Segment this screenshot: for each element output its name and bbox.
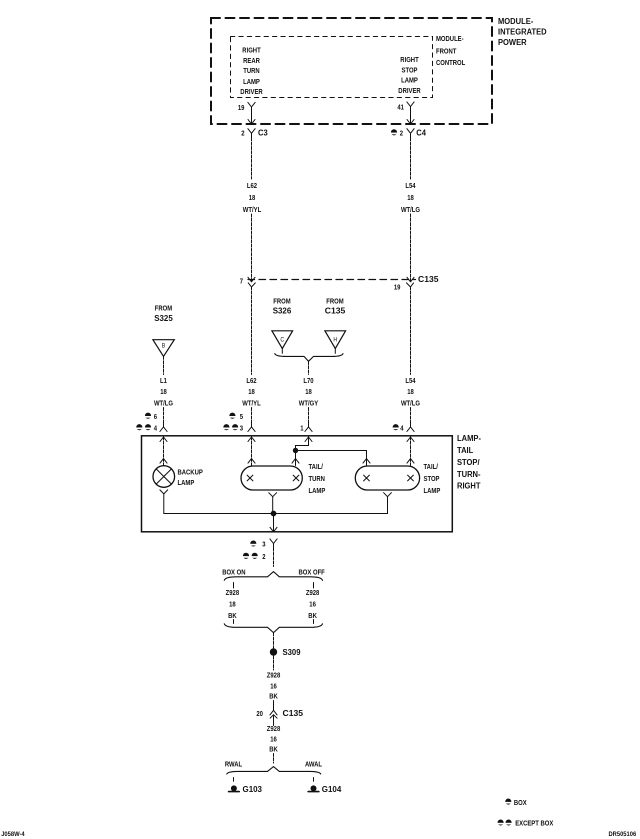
svg-text:WT/GY: WT/GY	[299, 398, 318, 407]
wire Z928 16 BK below S309	[273, 656, 275, 670]
svg-text:18: 18	[407, 193, 414, 202]
svg-text:J058W-4: J058W-4	[1, 831, 25, 838]
value label L54 18 WT/LG	[401, 376, 420, 407]
svg-text:CONTROL: CONTROL	[436, 58, 466, 67]
svg-text:16: 16	[270, 681, 277, 690]
connector C135 pin 19	[394, 274, 439, 292]
svg-text:FRONT: FRONT	[436, 47, 457, 56]
label TAIL/TURN LAMP	[309, 462, 326, 495]
svg-text:20: 20	[256, 709, 263, 718]
svg-text:18: 18	[249, 193, 256, 202]
svg-text:L1: L1	[160, 376, 167, 385]
value label L62 18 WT/YL	[242, 376, 261, 407]
svg-text:TAIL/: TAIL/	[424, 462, 438, 471]
connector into lamp at L62	[248, 421, 255, 431]
svg-text:L62: L62	[247, 181, 257, 190]
svg-text:TURN: TURN	[243, 66, 259, 75]
inner dashed box front control module	[231, 37, 433, 98]
svg-text:AWAL: AWAL	[305, 759, 322, 768]
svg-text:LAMP: LAMP	[243, 77, 260, 86]
legend EXCEPT BOX	[497, 819, 553, 828]
wire L62 18 WT/YL (upper)	[251, 138, 253, 281]
svg-text:STOP: STOP	[424, 474, 440, 483]
branch wire from node to tail/stop lamp	[296, 451, 371, 466]
tail/stop lamp	[355, 466, 419, 490]
svg-text:FROM: FROM	[155, 304, 172, 313]
svg-text:LAMP: LAMP	[401, 76, 418, 85]
svg-text:S309: S309	[283, 647, 301, 657]
value label L70 18 WT/GY	[299, 376, 318, 407]
svg-text:REAR: REAR	[243, 56, 260, 65]
label MODULE-INTEGRATED POWER	[498, 16, 547, 47]
wire Z928 16 BK (right branch)	[313, 583, 315, 589]
svg-text:C135: C135	[283, 708, 304, 718]
wire to G104	[313, 778, 315, 782]
svg-text:RIGHT: RIGHT	[400, 55, 419, 64]
wire Z928 18 BK (left branch)	[233, 583, 235, 589]
svg-text:POWER: POWER	[498, 37, 527, 47]
svg-text:C: C	[280, 337, 284, 344]
svg-text:19: 19	[394, 282, 401, 291]
tail/turn lamp	[241, 466, 302, 490]
svg-text:2: 2	[241, 129, 244, 138]
connector into lamp at L70	[305, 421, 312, 431]
triangle C	[272, 331, 293, 349]
module box MODULE-INTEGRATED POWER (outer dashed)	[211, 18, 492, 124]
svg-text:DRIVER: DRIVER	[240, 87, 263, 96]
svg-text:L62: L62	[246, 376, 256, 385]
svg-text:Z928: Z928	[226, 588, 240, 597]
entry arrow + wire L1 inside box	[160, 437, 167, 466]
wire L70 18 WT/GY	[308, 362, 310, 423]
split brace to two fuse paths	[224, 572, 322, 581]
svg-text:Z928: Z928	[306, 588, 320, 597]
svg-text:BOX ON: BOX ON	[222, 567, 245, 576]
svg-text:LAMP-: LAMP-	[457, 433, 481, 443]
svg-text:MODULE-: MODULE-	[498, 16, 533, 26]
backup lamp circle	[153, 466, 175, 488]
junction node S splice inside box	[271, 511, 277, 517]
svg-text:BOX: BOX	[514, 798, 527, 807]
svg-text:18: 18	[305, 387, 312, 396]
exit connector backup lamp	[160, 490, 168, 514]
svg-text:FROM: FROM	[326, 296, 343, 305]
svg-text:TAIL: TAIL	[457, 445, 473, 455]
svg-text:FROM: FROM	[273, 296, 290, 305]
svg-text:Z928: Z928	[267, 671, 281, 680]
connector C135 dashed line	[248, 279, 416, 281]
wire to S309	[273, 633, 275, 648]
label LAMP-TAIL STOP/TURN-RIGHT	[457, 433, 481, 490]
svg-text:3: 3	[240, 423, 243, 432]
connector C135 pin 7	[240, 277, 256, 287]
pin row below box: circuit 2	[243, 552, 266, 561]
entry arrow + jog wire L70 inside box	[292, 437, 312, 466]
svg-text:WT/LG: WT/LG	[154, 398, 173, 407]
svg-text:18: 18	[160, 387, 167, 396]
svg-text:3: 3	[262, 540, 265, 549]
wire L1 from triangle B	[163, 356, 165, 422]
value label Z928 16 BK	[267, 671, 281, 701]
svg-text:TAIL/: TAIL/	[309, 462, 323, 471]
merge brace	[224, 624, 322, 633]
svg-text:STOP: STOP	[402, 65, 418, 74]
arrow at box bottom edge	[270, 527, 277, 532]
split brace to grounds	[227, 767, 321, 774]
svg-text:S326: S326	[273, 305, 292, 315]
label FROM S325	[154, 304, 173, 323]
svg-text:C135: C135	[325, 305, 346, 315]
svg-text:G104: G104	[322, 784, 342, 794]
label RIGHT REAR TURN LAMP DRIVER	[240, 45, 263, 96]
svg-text:L70: L70	[303, 376, 313, 385]
svg-text:B: B	[162, 343, 166, 350]
exit connector tail/stop lamp	[384, 493, 392, 514]
label FROM C135	[325, 296, 346, 315]
svg-text:G103: G103	[243, 784, 263, 794]
svg-text:WT/LG: WT/LG	[401, 205, 420, 214]
value label L1 18 WT/LG	[154, 376, 173, 407]
svg-text:LAMP: LAMP	[424, 486, 441, 495]
wire to G103	[233, 778, 235, 782]
ground G104	[308, 784, 341, 794]
svg-text:DR505106: DR505106	[609, 831, 637, 838]
label RIGHT STOP LAMP DRIVER	[398, 55, 421, 95]
stems from triangles	[282, 349, 335, 354]
svg-text:LAMP: LAMP	[309, 486, 326, 495]
svg-text:TURN-: TURN-	[457, 469, 481, 479]
arrow into C3	[248, 120, 255, 125]
svg-text:6: 6	[154, 412, 157, 421]
connector C4 pin 2	[391, 128, 426, 138]
connector C3 pin 2	[241, 128, 268, 138]
svg-text:DRIVER: DRIVER	[398, 86, 421, 95]
pin row L54: circuit 4	[393, 423, 405, 432]
label TAIL/STOP LAMP	[424, 462, 441, 495]
svg-text:41: 41	[397, 103, 404, 112]
pin row L1: circuit 6 / 4	[145, 412, 157, 421]
svg-text:2: 2	[262, 552, 265, 561]
legend BOX	[505, 798, 527, 807]
svg-text:7: 7	[240, 277, 243, 286]
svg-text:WT/LG: WT/LG	[401, 398, 420, 407]
svg-text:L54: L54	[405, 181, 416, 190]
svg-text:18: 18	[407, 387, 414, 396]
svg-text:BACKUP: BACKUP	[178, 468, 203, 477]
exit connector tail/turn lamp	[269, 493, 277, 514]
svg-text:BK: BK	[269, 691, 278, 700]
ground G103	[229, 784, 263, 794]
svg-text:S325: S325	[154, 313, 173, 323]
svg-text:18: 18	[229, 599, 236, 608]
svg-text:C3: C3	[258, 128, 268, 138]
connector C135 pin 20	[256, 705, 303, 721]
svg-text:16: 16	[309, 599, 316, 608]
svg-text:STOP/: STOP/	[457, 457, 480, 467]
svg-text:1: 1	[300, 423, 303, 432]
connector into lamp at L1	[160, 421, 167, 431]
pin 41 of module	[397, 102, 414, 112]
wire L54 18 WT/LG (upper)	[410, 138, 412, 281]
svg-text:C4: C4	[416, 128, 426, 138]
svg-text:MODULE-: MODULE-	[436, 34, 464, 43]
entry arrow + wire L62 inside box	[248, 437, 255, 466]
value label Z928 18 BK	[226, 588, 240, 620]
svg-text:LAMP: LAMP	[178, 478, 195, 487]
svg-text:RIGHT: RIGHT	[457, 481, 481, 491]
wire pin19 to C3	[251, 112, 253, 124]
svg-text:2: 2	[400, 129, 403, 138]
wire Z928 16 BK below C135	[273, 721, 275, 726]
wire below box	[273, 548, 275, 566]
connector into lamp at L54	[407, 421, 414, 431]
svg-text:INTEGRATED: INTEGRATED	[498, 27, 547, 37]
svg-text:BK: BK	[308, 611, 317, 620]
svg-text:RIGHT: RIGHT	[242, 45, 261, 54]
svg-text:5: 5	[240, 412, 243, 421]
splice S309	[270, 647, 301, 657]
triangle B	[153, 340, 174, 357]
svg-text:WT/YL: WT/YL	[242, 398, 261, 407]
lamp assembly box	[142, 436, 453, 532]
svg-text:Z928: Z928	[267, 724, 281, 733]
wire L54 (lower)	[410, 287, 412, 422]
wire out of box bottom	[273, 514, 275, 532]
pin row L62: circuit 5 / 3	[229, 412, 243, 421]
value label Z928 16 BK	[267, 724, 281, 753]
svg-text:WT/YL: WT/YL	[243, 205, 262, 214]
pin row below box: circuit 3	[250, 539, 277, 549]
svg-text:TURN: TURN	[309, 474, 325, 483]
svg-text:RWAL: RWAL	[225, 759, 243, 768]
label MODULE-FRONT CONTROL	[436, 34, 466, 67]
svg-text:18: 18	[248, 387, 255, 396]
svg-text:C135: C135	[418, 274, 439, 284]
wire pin41 to C4	[410, 111, 412, 124]
junction node on L70 branch	[293, 448, 298, 453]
wire L62 (lower)	[251, 287, 253, 422]
svg-text:19: 19	[238, 103, 245, 112]
svg-text:BK: BK	[228, 611, 237, 620]
svg-text:BOX OFF: BOX OFF	[299, 567, 326, 576]
triangle H	[325, 331, 346, 349]
svg-text:BK: BK	[269, 744, 278, 753]
arrow into C4	[407, 120, 414, 125]
value label Z928 16 BK	[306, 588, 320, 620]
svg-text:EXCEPT BOX: EXCEPT BOX	[515, 819, 553, 828]
svg-text:4: 4	[400, 423, 404, 432]
merge brace to L70	[275, 354, 343, 362]
collector wire inside box	[164, 513, 388, 515]
entry arrow + wire L54 inside box	[407, 437, 414, 466]
label FROM S326	[273, 296, 292, 315]
svg-text:H: H	[333, 337, 337, 344]
pin 19 of module	[238, 102, 255, 112]
svg-text:16: 16	[270, 734, 277, 743]
value label L62 18 WT/YL	[243, 181, 262, 214]
value label L54 18 WT/LG	[401, 181, 420, 214]
svg-text:L54: L54	[405, 376, 416, 385]
svg-text:4: 4	[154, 423, 158, 432]
label BACKUP LAMP	[178, 468, 203, 487]
